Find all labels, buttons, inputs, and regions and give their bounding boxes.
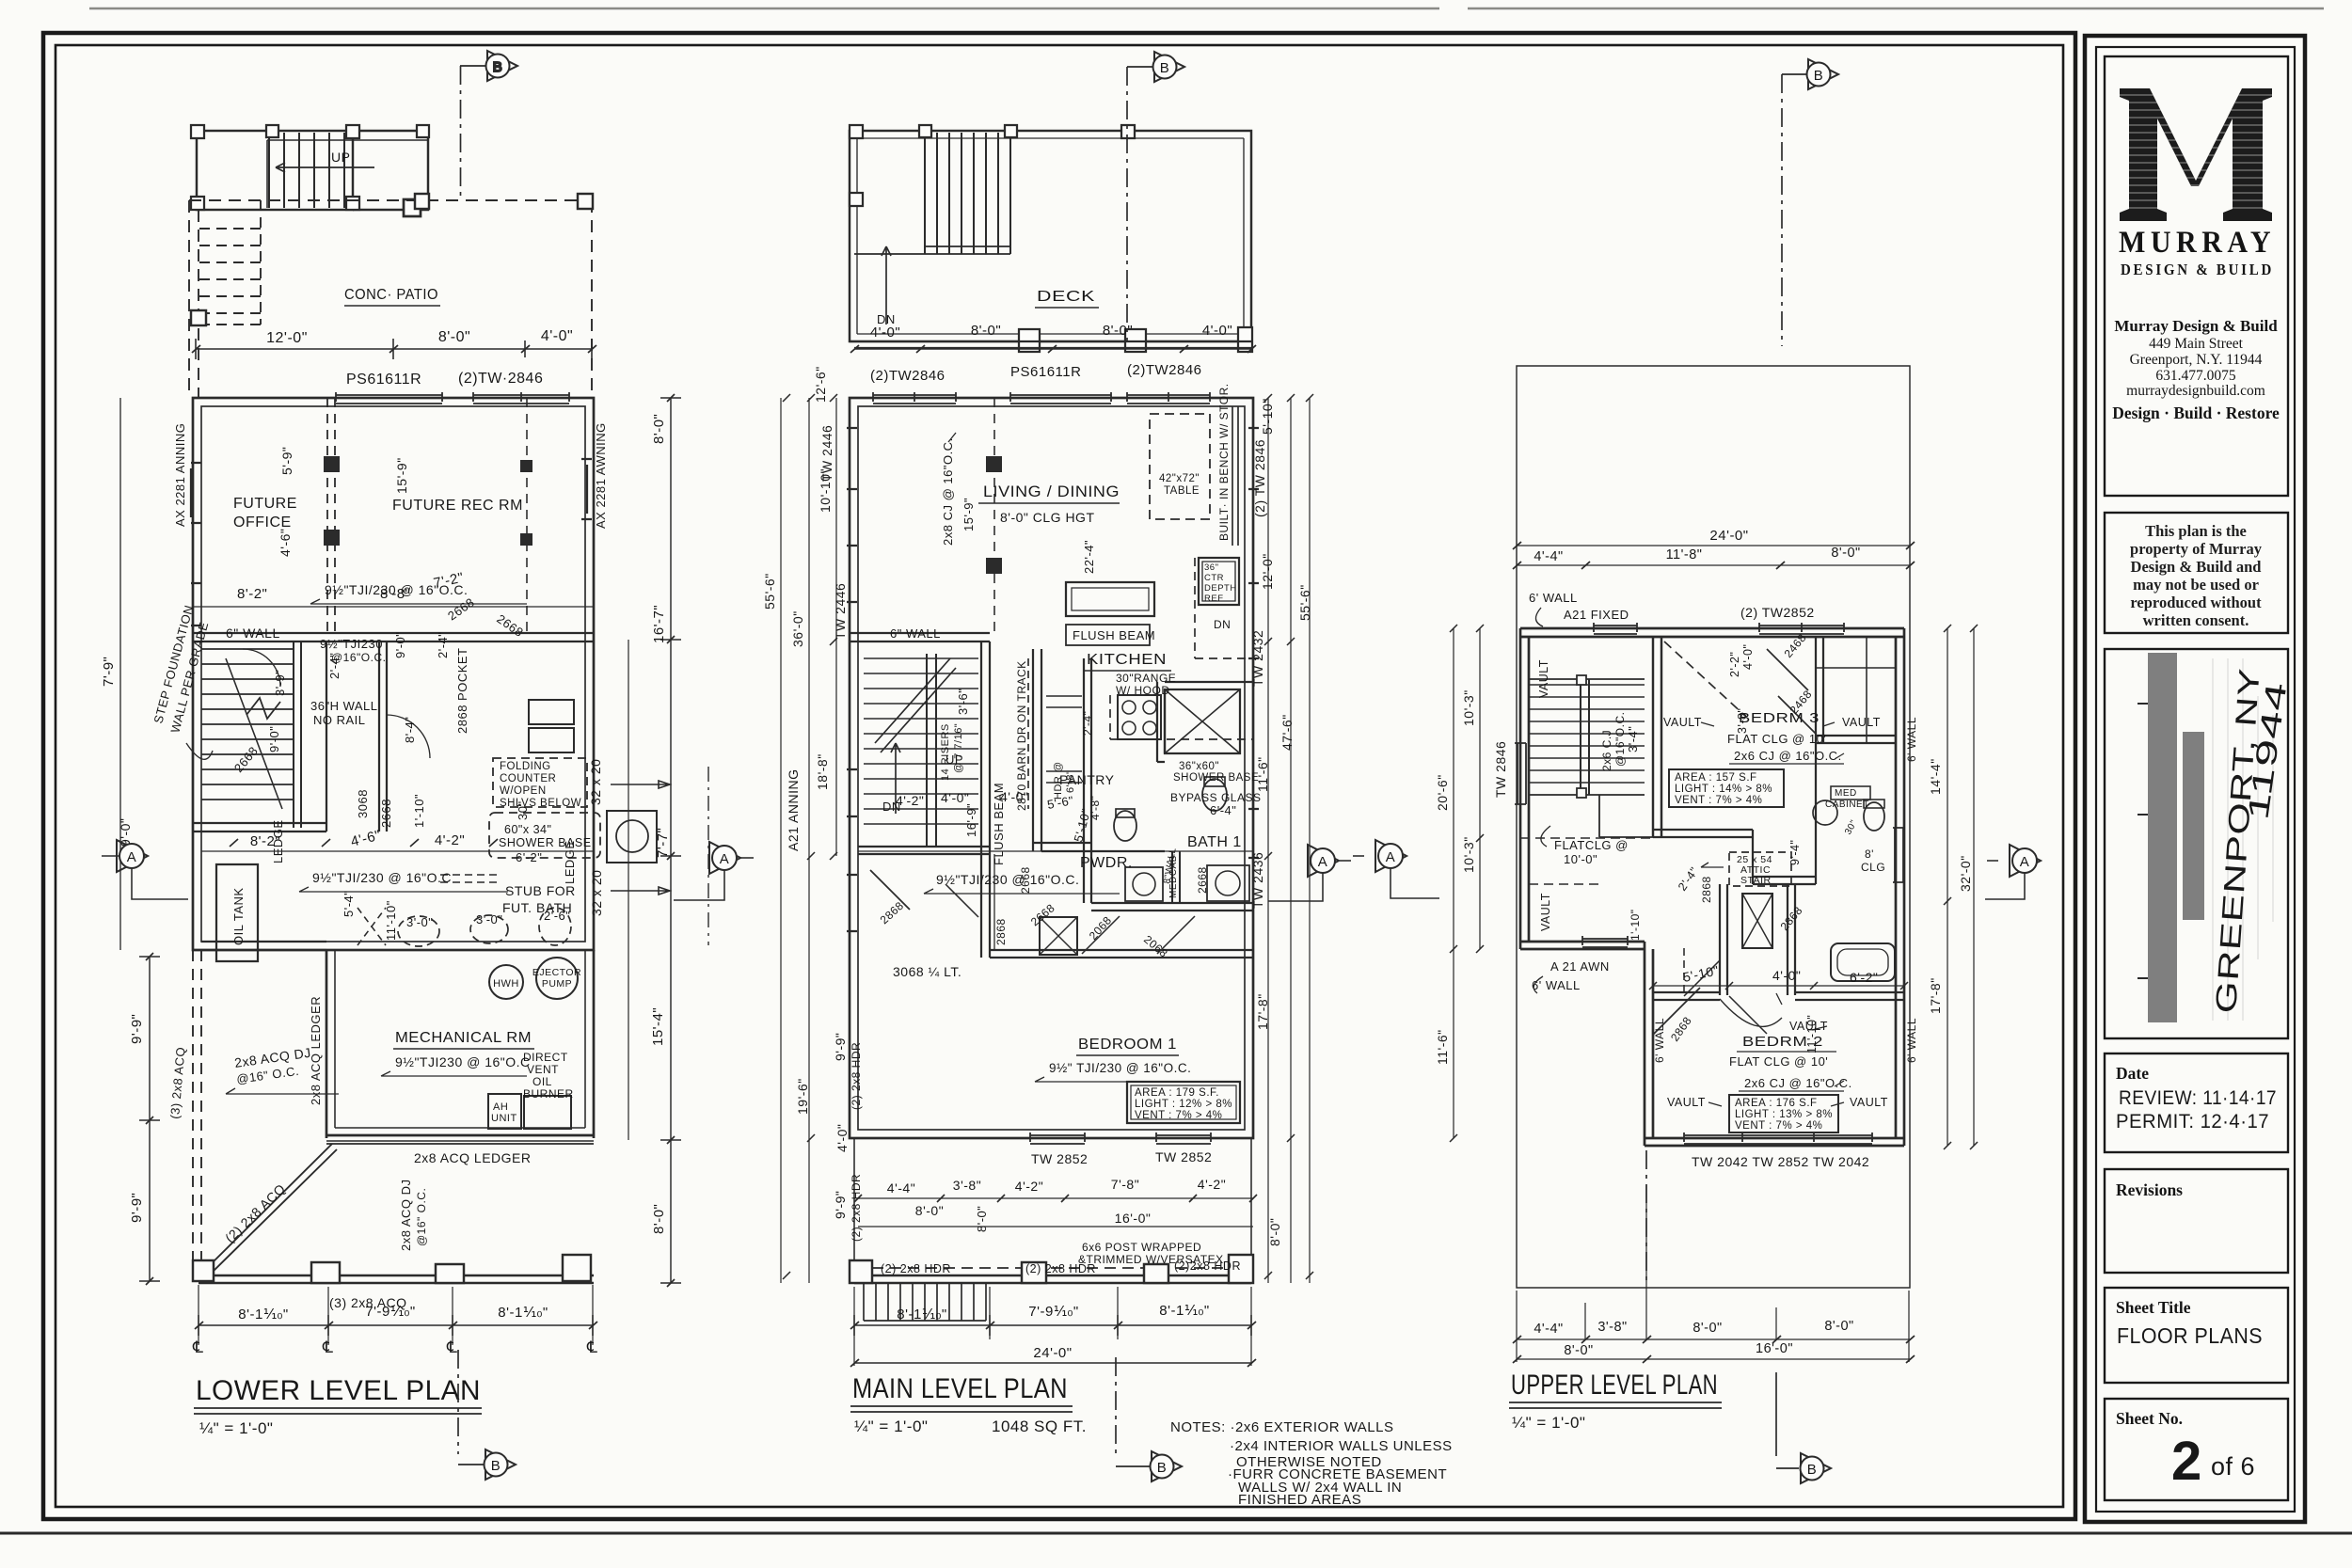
svg-text:24'-0": 24'-0" [1709,528,1748,544]
left upper vertical dim [119,398,121,950]
svg-text:FUTURE: FUTURE [233,496,297,512]
svg-text:BEDROOM 1: BEDROOM 1 [1078,1037,1177,1053]
bath2 toilet [1864,802,1884,831]
a21 awn label [1532,959,1610,992]
svg-text:4'-0": 4'-0" [834,1124,850,1152]
svg-text:B: B [491,1458,501,1474]
svg-text:3'-0": 3'-0" [406,915,433,929]
ref box [1199,558,1239,605]
svg-text:36"x60": 36"x60" [1179,761,1219,772]
svg-text:SHOWER BASE: SHOWER BASE [1173,772,1259,784]
svg-text:8'-0": 8'-0" [651,1204,667,1234]
svg-text:A: A [1318,854,1328,870]
svg-text:·2x4 INTERIOR WALLS UNLESS: ·2x4 INTERIOR WALLS UNLESS [1230,1438,1453,1454]
mechanical room wall [326,950,594,1138]
closets top right [1816,637,1896,743]
rec rm joist bearing dashed line w posts [526,398,528,633]
shower bath labels [1170,761,1262,817]
svg-text:14'-4": 14'-4" [1928,758,1943,795]
deck landing rail [854,253,925,255]
svg-text:AX 2281 AWNING: AX 2281 AWNING [594,422,608,529]
svg-text:5'-6": 5'-6" [1046,793,1075,812]
svg-text:4'-0": 4'-0" [541,328,573,344]
patio post left [191,310,206,325]
svg-text:PERMIT: 12·4·17: PERMIT: 12·4·17 [2116,1111,2269,1132]
svg-text:OIL: OIL [532,1075,552,1088]
svg-text:BEDRM 2: BEDRM 2 [1742,1034,1823,1050]
22-4 rotated [1082,540,1096,574]
map gray street bar 2 [2183,732,2204,920]
svg-text:4'-2": 4'-2" [1015,1179,1043,1194]
bedrm2 door swing [1684,960,1767,1034]
hall door arc [387,715,430,758]
svg-text:36'-0": 36'-0" [790,610,805,647]
dim row above 6 wall [237,570,465,602]
riser note rotated [940,723,964,781]
up label stair [946,752,963,767]
svg-text:2668: 2668 [1019,866,1032,894]
mechanical rm label [395,1030,532,1046]
svg-text:2'-4": 2'-4" [1676,864,1701,893]
svg-text:DIRECT: DIRECT [523,1051,568,1064]
deck inner edge lines [857,138,1244,334]
oil tank label [231,887,246,945]
pwdr toilet [1114,811,1136,841]
svg-text:PANTRY: PANTRY [1059,772,1115,787]
office / rec rm dashed partition [327,398,335,633]
closet lower left of bedrm2 [1653,988,1700,1035]
svg-text:8'-0": 8'-0" [1267,1218,1282,1246]
top wall windows [336,392,442,404]
post note [1078,1241,1224,1266]
svg-text:2668: 2668 [494,611,526,640]
2468 labels [1668,631,1815,1044]
bath2 sink [1813,800,1837,825]
svg-text:8'-0" CLG HGT: 8'-0" CLG HGT [1000,510,1095,525]
future office label [233,496,297,531]
sheet inner border frame [56,45,2063,1507]
entry door diag [870,870,910,910]
extra right dim line [628,640,629,1140]
6-wall rotated labels [1629,717,1918,1063]
svg-text:FLUSH BEAM: FLUSH BEAM [1073,628,1155,642]
svg-text:6' WALL: 6' WALL [1905,717,1918,762]
svg-text:2x6 CJ @ 16"O.C.: 2x6 CJ @ 16"O.C. [1744,1076,1852,1090]
svg-text:15'-9": 15'-9" [394,457,409,494]
kitchen label [1087,652,1167,668]
dining table dashed [1150,414,1210,519]
map faint street lines [2213,658,2273,1021]
porch dashed header line [854,1267,1251,1269]
interior 6 wall kitchen [850,633,990,641]
svg-text:5'-9": 5'-9" [279,447,294,475]
rotated dims office [173,422,608,941]
svg-text:9½" TJI/230 @ 16"O.C.: 9½" TJI/230 @ 16"O.C. [1049,1061,1191,1075]
svg-text:Date: Date [2116,1064,2149,1083]
upper left wall lower [1645,942,1653,1146]
svg-text:9'-9": 9'-9" [833,1191,848,1219]
up arrow on stoop [276,163,374,172]
attic stair dashed [1729,852,1791,886]
svg-text:UP: UP [331,150,350,165]
svg-text:℄: ℄ [192,1338,203,1356]
svg-text:6' WALL: 6' WALL [1532,978,1581,992]
svg-text:TW 2852: TW 2852 [1031,1151,1088,1166]
svg-text:B: B [493,59,503,75]
svg-text:TW 2852: TW 2852 [1155,1149,1212,1164]
scan top edge artifact [89,8,2324,10]
left wall window marks main [847,428,857,602]
deck ledger line [326,1143,594,1145]
flat clg dashed line [1520,837,1653,839]
svg-text:2668: 2668 [1196,866,1209,894]
svg-text:A: A [127,849,137,865]
dims rotated interior [1626,644,1819,1053]
svg-text:2'-4": 2'-4" [436,632,450,658]
svg-text:12'-0": 12'-0" [1260,553,1275,590]
flush beam rotated [992,783,1006,865]
bedroom1 label [1078,1037,1177,1053]
svg-text:(2)TW2846: (2)TW2846 [870,368,946,384]
svg-text:8'-2": 8'-2" [237,586,267,602]
pantry dims [1046,793,1102,820]
upper left wall [1520,628,1529,949]
svg-text:(2)2x8 HDR: (2)2x8 HDR [1174,1259,1241,1273]
svg-text:5'-10": 5'-10" [1071,807,1093,844]
svg-text:NOTES: ·2x6 EXTERIOR WALLS: NOTES: ·2x6 EXTERIOR WALLS [1170,1419,1394,1435]
svg-text:KITCHEN: KITCHEN [1087,652,1167,668]
interior stair up [864,654,978,847]
svg-text:TABLE: TABLE [1164,485,1200,497]
svg-text:FOLDING: FOLDING [500,761,551,772]
svg-text:VAULT: VAULT [1850,1096,1888,1109]
6 wall label [226,626,280,641]
svg-text:2: 2 [2171,1431,2202,1492]
hnh / ejector labels [493,967,581,990]
range label [1116,672,1176,697]
right wall column w footing [607,811,657,863]
area table bedroom1 [1127,1082,1240,1123]
flush beam line below stair wall [993,854,995,950]
deck stair lower rail [925,246,1010,254]
location map box [2105,649,2288,1038]
bottom dims right plan row1 [1517,1338,1910,1340]
right wall window TW2436 [1893,828,1904,882]
svg-text:6x6 POST WRAPPED: 6x6 POST WRAPPED [1082,1241,1201,1254]
deck bottom edge double line [193,1275,594,1283]
2x8 acq ledger bottom [414,1150,532,1165]
direct vent note [491,1051,574,1124]
left dim column mid plan [781,398,836,1283]
svg-text:2668: 2668 [1028,901,1057,928]
svg-text:18'-8": 18'-8" [815,753,830,790]
top dim 24-0 [1517,545,1910,546]
svg-text:2868 POCKET: 2868 POCKET [455,648,469,735]
svg-text:2x8 ACQ LEDGER: 2x8 ACQ LEDGER [414,1150,532,1165]
svg-text:10'-0": 10'-0" [1564,852,1597,866]
svg-text:24'-0": 24'-0" [1033,1345,1072,1361]
hall walls [1720,884,1795,995]
svg-text:16'-0": 16'-0" [1756,1341,1793,1356]
svg-text:W/ HOOD: W/ HOOD [1116,684,1170,697]
8 clg label [1861,847,1885,874]
svg-text:VENT: VENT [527,1063,559,1076]
svg-text:5'-10": 5'-10" [1260,398,1275,435]
svg-text:may not be used or: may not be used or [2133,576,2259,594]
med cabinet box [1831,786,1870,800]
acq ledger vertical note [309,996,323,1105]
svg-text:4'-0": 4'-0" [1000,789,1028,804]
bottom window labels [1692,1154,1869,1169]
svg-text:8'-0": 8'-0" [975,1206,989,1232]
porch posts [850,1255,1253,1283]
svg-text:DECK: DECK [1037,289,1095,305]
svg-text:2468: 2468 [1782,631,1809,660]
svg-text:2x6 CJ @ 16"O.C.: 2x6 CJ @ 16"O.C. [1734,749,1842,763]
svg-text:4'-0": 4'-0" [941,790,969,805]
svg-text:REF: REF [1204,594,1224,604]
window labels main top [870,362,1202,384]
bath1 label [1187,834,1242,850]
svg-text:7'-9": 7'-9" [101,657,117,687]
deck edge to house [850,341,1251,348]
section line B lower right plan [1645,1150,1647,1285]
svg-text:LIGHT : 14% > 8%: LIGHT : 14% > 8% [1675,784,1772,795]
svg-text:TW 2446: TW 2446 [833,583,848,640]
24-0 dim [854,1362,1251,1364]
upper level plan title [1511,1370,1718,1401]
svg-text:30"RANGE: 30"RANGE [1116,672,1176,685]
svg-text:8'-0": 8'-0" [1564,1343,1593,1358]
svg-text:FUTURE REC RM: FUTURE REC RM [392,498,523,514]
basement outer wall [193,398,594,950]
svg-text:9'-9": 9'-9" [129,1014,145,1044]
svg-text:6' WALL: 6' WALL [1905,1018,1918,1063]
svg-text:Murray Design & Build: Murray Design & Build [2114,317,2278,335]
svg-text:2'-2": 2'-2" [1728,652,1741,677]
svg-text:6'-2": 6'-2" [1850,970,1878,985]
svg-text:6'-4": 6'-4" [1210,803,1236,817]
barn door dashed [1027,658,1029,809]
svg-text:BYPASS GLASS: BYPASS GLASS [1170,791,1262,804]
6 wall label [890,626,941,641]
pwdr walls [1091,851,1253,911]
svg-text:631.477.0075: 631.477.0075 [2155,368,2236,384]
svg-text:DEPTH: DEPTH [1204,583,1237,594]
svg-text:MURRAY: MURRAY [2119,226,2276,260]
main level plan title [852,1373,1068,1404]
bedrm3 sub walls [1653,830,1753,884]
pantry shelves [1046,696,1082,783]
small door labels [878,866,1209,959]
ref label [1204,562,1237,604]
svg-text:(2) TW2852: (2) TW2852 [1740,605,1815,620]
bedroom door dashed swings [1082,916,1195,954]
ah unit box [488,1094,521,1129]
section marker A right [674,842,754,900]
med cab label [1168,855,1179,898]
deck label [1037,289,1095,305]
svg-text:8'-0": 8'-0" [438,329,470,345]
right vertical dim line [660,398,681,1283]
bath1 walls [1157,682,1253,762]
svg-text:VENT : 7% > 4%: VENT : 7% > 4% [1135,1110,1222,1121]
hnh tank circle [489,965,523,999]
21-4 rotated kitchen [1081,711,1094,736]
conc patio label [344,287,438,303]
svg-text:30": 30" [516,800,530,820]
svg-text:7'-9⅒": 7'-9⅒" [365,1304,415,1320]
svg-text:A: A [2020,854,2030,870]
section marker A right-middle [1268,845,1351,901]
svg-text:(2) 2x8 HDR: (2) 2x8 HDR [881,1262,951,1275]
copyright box [2105,513,2288,633]
svg-text:3'-0": 3'-0" [476,912,502,927]
svg-text:8'-1⅒": 8'-1⅒" [238,1307,288,1323]
mech room wall inner lines [326,950,594,1141]
upper right wall [1896,628,1904,1146]
jog wall window A21 [1582,936,1628,947]
island [1066,582,1154,616]
sheet no box [2105,1399,2288,1500]
svg-text:PWDR.: PWDR. [1080,855,1133,871]
svg-text:3068: 3068 [356,789,370,818]
svg-text:7'-8": 7'-8" [1111,1177,1139,1192]
deck dn arrow [882,246,891,325]
svg-text:Design · Build · Restore: Design · Build · Restore [2112,404,2280,422]
pocket door dashed [440,875,497,882]
svg-text:VAULT: VAULT [1539,893,1552,931]
basement outer wall inner line [201,406,585,942]
svg-text:COUNTER: COUNTER [500,773,556,784]
svg-text:PS61611R: PS61611R [346,372,421,388]
svg-text:10'-3": 10'-3" [1461,836,1476,873]
svg-text:SHLVS BELOW: SHLVS BELOW [500,798,581,809]
svg-text:A: A [720,851,730,867]
kitchen back counter [1110,695,1253,739]
svg-text:UP: UP [946,752,963,767]
med cab wall [1172,851,1180,903]
svg-text:CABINET: CABINET [1825,800,1869,810]
svg-text:6" WALL: 6" WALL [226,626,280,641]
flush beam label box [1066,625,1150,645]
svg-text:5'-10": 5'-10" [1681,962,1720,985]
svg-text:4'-0": 4'-0" [1202,323,1232,339]
bedrm2 label [1729,1034,1852,1090]
svg-text:(3) 2x8 ACQ: (3) 2x8 ACQ [167,1046,188,1119]
dn near ref [1214,618,1231,631]
flatclg note left [1554,838,1629,866]
svg-text:TW 2432: TW 2432 [1250,630,1265,687]
svg-text:36": 36" [1204,562,1218,573]
svg-text:7'-9⅒": 7'-9⅒" [1028,1304,1078,1320]
pwdr sink [1125,867,1163,901]
3-6 rotated [956,689,970,715]
svg-text:15'-4": 15'-4" [650,1007,666,1046]
patio dim line [196,339,592,359]
folding counter dashed [493,758,587,807]
svg-text:HWH: HWH [493,978,519,990]
scan bottom paper edge line [0,1532,2352,1535]
svg-text:¼" = 1'-0": ¼" = 1'-0" [854,1418,928,1435]
svg-text:22'-4": 22'-4" [1082,540,1096,574]
porch front steps [864,1283,986,1321]
svg-text:2'-6": 2'-6" [544,909,570,923]
svg-text:2668: 2668 [231,744,261,775]
svg-text:EJECTOR: EJECTOR [532,967,581,978]
pantry walls [1033,649,1091,851]
bottom extension lines main [854,1287,1251,1366]
svg-text:AREA : 176 S.F: AREA : 176 S.F [1735,1098,1818,1109]
upper level top wall [1520,628,1904,637]
svg-text:4'-0": 4'-0" [870,325,900,341]
svg-text:CTR: CTR [1204,573,1224,583]
left side A21 awning window mark [847,769,857,816]
map tick marks [2137,704,2148,978]
interior wall stair-bedrm3 [1653,637,1661,837]
svg-text:A21 ANNING: A21 ANNING [786,769,801,851]
svg-text:LIGHT : 13% > 8%: LIGHT : 13% > 8% [1735,1109,1833,1120]
svg-text:2868: 2868 [1668,1014,1694,1044]
shower note [499,823,592,864]
svg-text:2668: 2668 [379,799,393,828]
patio dashed outline [189,200,592,398]
window marks right wall [581,459,592,519]
svg-text:8'-0": 8'-0" [971,323,1001,339]
svg-text:9½"TJI230 @ 16"O.C: 9½"TJI230 @ 16"O.C [395,1054,531,1069]
svg-text:CLG: CLG [1861,861,1885,874]
dim row 1295 [915,1203,1152,1232]
hdr note rotated [1053,761,1076,800]
svg-text:9'-9": 9'-9" [833,1033,848,1061]
2x8 acq dj vertical right [399,1179,428,1251]
svg-text:55'-6": 55'-6" [1297,584,1312,621]
svg-text:FLATCLG @: FLATCLG @ [1554,838,1629,852]
svg-text:PUMP: PUMP [542,978,572,990]
svg-text:NO RAIL: NO RAIL [313,713,366,727]
svg-text:9½"TJI/230 @ 16"O.C: 9½"TJI/230 @ 16"O.C [312,870,452,885]
joist note main [936,872,1079,887]
svg-text:(2)TW·2846: (2)TW·2846 [458,371,543,387]
svg-text:8': 8' [1865,847,1874,861]
patio post right [578,194,593,209]
svg-text:MAIN LEVEL PLAN: MAIN LEVEL PLAN [852,1373,1068,1404]
top windows upper [1594,623,1637,634]
built-in bench [1232,406,1238,546]
deck posts [850,125,1252,352]
shower base dashed [489,813,600,858]
svg-text:19'-6": 19'-6" [795,1078,810,1115]
svg-text:SHOWER BASE: SHOWER BASE [499,836,592,849]
svg-text:16'-7": 16'-7" [651,605,667,643]
patio post mid [415,194,429,209]
svg-text:A21 FIXED: A21 FIXED [1564,608,1629,622]
up label [331,150,350,165]
Murray M logo [2117,88,2277,221]
svg-text:AX 2281 ANNING: AX 2281 ANNING [173,423,187,527]
(3) 2x8 acq bottom [329,1295,407,1310]
joist note rec rm [325,582,468,597]
svg-text:8'-2": 8'-2" [250,833,280,849]
oil burner box [524,1096,571,1129]
svg-text:(2)TW2846: (2)TW2846 [1127,362,1202,378]
svg-text:DESIGN & BUILD: DESIGN & BUILD [2121,261,2274,278]
svg-text:2x8 ACQ DJ: 2x8 ACQ DJ [399,1179,413,1251]
ejector pump circle [536,958,578,999]
flush beam label [1073,628,1155,642]
svg-text:4'-6": 4'-6" [349,827,383,849]
stair side wall [858,641,990,854]
